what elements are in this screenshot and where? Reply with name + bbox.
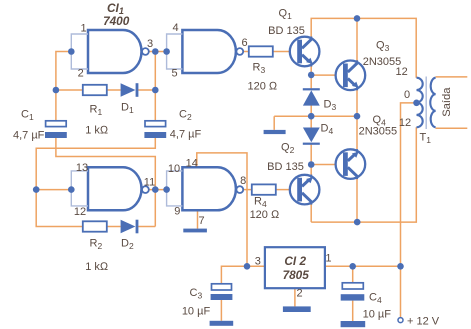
wire: 7805 pin3 node to C3	[221, 266, 265, 284]
NAND gate CI1-c input bracket	[71, 171, 88, 206]
wire: C4 to ground	[352, 301, 354, 321]
node: R1 row right	[152, 87, 159, 94]
wire: gate4 output to R4	[243, 189, 252, 191]
NAND gate CI1-b output bubble	[236, 48, 243, 55]
resistor R2	[83, 221, 107, 231]
svg-text:1: 1	[80, 23, 86, 35]
svg-text:C3: C3	[190, 287, 203, 301]
svg-text:R4: R4	[254, 196, 267, 210]
wire: bottom rail to transformer primary bottom	[311, 127, 416, 222]
wire: C1 bottom to gate3 output column	[56, 138, 155, 190]
NAND gate CI1-d output bubble	[236, 186, 243, 193]
svg-text:D1: D1	[121, 102, 134, 116]
diode D2	[121, 220, 139, 234]
wire: Q3 emitter / Q4 emitter column	[356, 90, 358, 149]
transistor Q2	[290, 175, 320, 205]
transformer T1 core	[425, 77, 427, 130]
svg-text:14: 14	[186, 158, 198, 170]
NAND gate CI1-c body	[88, 167, 142, 210]
svg-text:D2: D2	[121, 238, 134, 252]
wire: Q2 emitter up	[310, 165, 312, 175]
svg-text:1: 1	[325, 253, 331, 265]
ground: C4	[341, 321, 366, 327]
wire: Q3 collector	[356, 18, 358, 60]
IC CI2 7805 box	[265, 247, 325, 288]
wire: D4 cathode to Q2 emitter node	[310, 145, 312, 165]
node: transformer center tap	[413, 100, 420, 107]
node: D3/D4 ground junction	[308, 113, 315, 120]
svg-text:3: 3	[147, 38, 153, 50]
svg-text:D3: D3	[324, 99, 337, 113]
svg-text:R3: R3	[253, 62, 266, 76]
node: gate4 input junction	[163, 186, 170, 193]
node: bottom rail Q4 collector	[354, 219, 361, 226]
wire: C4 node down	[352, 266, 354, 283]
svg-text:1 kΩ: 1 kΩ	[85, 125, 109, 137]
resistor R3	[249, 46, 273, 56]
node: 7805 output	[244, 263, 251, 270]
transistor Q1	[290, 37, 320, 67]
svg-text:3: 3	[255, 256, 261, 268]
wire: gate2 output to R3	[243, 51, 249, 53]
node: Q2 emitter / Q4 base	[308, 161, 315, 168]
svg-text:11: 11	[144, 177, 155, 189]
wire: 7805 pin2 to ground	[294, 288, 296, 306]
transistor Q4	[336, 149, 366, 179]
wire: R1-D1 feedback row	[56, 89, 155, 91]
capacitor C1	[45, 121, 67, 138]
svg-text:10: 10	[168, 163, 180, 175]
svg-text:12: 12	[395, 66, 407, 78]
transformer T1 secondary winding	[430, 78, 435, 128]
svg-text:12: 12	[399, 117, 411, 129]
NAND gate CI1-b input bracket	[167, 34, 183, 69]
ground: gate4 pin7	[183, 229, 207, 233]
wire: R2-D2 row to gate3 output	[107, 190, 156, 227]
ground: 7805 pin2	[283, 306, 311, 312]
svg-text:5: 5	[171, 68, 177, 80]
wire: center tap to +12V column	[401, 103, 417, 318]
svg-text:7400: 7400	[103, 14, 130, 28]
node: R1 row left	[53, 87, 60, 94]
wire: transformer secondary bottom terminal	[436, 127, 468, 129]
wire: 7805 pin1 to C4 node and +12V column	[325, 265, 401, 267]
svg-text:+ 12 V: + 12 V	[407, 316, 440, 328]
wire: ground node to D4 anode	[310, 116, 312, 127]
wire: gate1 output to gate2 input	[149, 51, 167, 53]
NAND gate CI1-a body	[88, 30, 142, 73]
svg-text:Q2: Q2	[281, 142, 295, 156]
svg-text:120 Ω: 120 Ω	[250, 209, 280, 221]
wire: Q2 collector down	[310, 204, 312, 222]
node: C4 top	[349, 263, 356, 270]
wire: Q4 collector down	[356, 179, 358, 222]
node: gate1 output junction	[152, 48, 159, 55]
NAND gate CI1-b body	[182, 30, 236, 73]
resistor R1	[83, 85, 107, 95]
svg-text:2: 2	[296, 288, 302, 300]
svg-text:BD 135: BD 135	[267, 161, 304, 173]
resistor R4	[252, 184, 276, 194]
node: top rail Q3 collector	[354, 15, 361, 22]
node: gate2 input junction	[163, 48, 170, 55]
svg-text:C2: C2	[179, 109, 192, 123]
svg-text:D4: D4	[321, 123, 334, 137]
node: gate1 input junction	[68, 48, 75, 55]
svg-text:BD 135: BD 135	[268, 25, 305, 37]
capacitor C4	[341, 283, 365, 301]
svg-text:Q1: Q1	[279, 8, 293, 22]
wire: R4 to Q2 base	[276, 189, 290, 191]
svg-text:1 kΩ: 1 kΩ	[85, 261, 109, 273]
capacitor C2	[144, 121, 166, 138]
svg-text:9: 9	[174, 206, 180, 218]
node: Q1 emitter / Q3 base	[308, 72, 315, 79]
svg-text:10 µF: 10 µF	[182, 306, 211, 318]
svg-text:4: 4	[172, 22, 178, 34]
wire: top rail Q1 collector to transformer primary top	[311, 18, 416, 77]
ground: C3	[210, 321, 234, 326]
svg-text:4,7 µF: 4,7 µF	[170, 129, 202, 141]
svg-text:120 Ω: 120 Ω	[247, 81, 277, 93]
wire: C3 to ground	[220, 300, 222, 321]
wire: pin14 supply from gate4 to 7805 output node	[197, 153, 247, 266]
NAND gate CI1-a output bubble	[142, 48, 149, 55]
svg-text:2N3055: 2N3055	[359, 126, 398, 138]
node: gate3 input bracket	[68, 186, 75, 193]
svg-text:0: 0	[404, 89, 410, 101]
node: left bus gate3 input	[33, 186, 40, 193]
NAND gate CI1-d input bracket	[167, 171, 183, 206]
wire: gate3 input bus horizontal	[36, 189, 71, 191]
wire: D3 anode to ground node	[310, 105, 312, 116]
svg-text:CI 2: CI 2	[284, 254, 306, 268]
svg-text:R2: R2	[90, 238, 103, 252]
wire: gate3 output to gate4 input	[149, 189, 167, 191]
transformer T1 primary winding	[417, 78, 423, 128]
wire: R3 to Q1 base	[273, 51, 290, 53]
svg-text:7: 7	[198, 215, 204, 227]
wire: node to D3 cathode	[310, 75, 312, 89]
svg-text:C4: C4	[369, 292, 382, 306]
svg-text:8: 8	[240, 175, 246, 187]
diode D4	[303, 128, 320, 145]
diode D1	[121, 83, 139, 97]
svg-text:2: 2	[78, 68, 84, 80]
NAND gate CI1-a input bracket	[71, 34, 88, 69]
node: +12V column	[397, 263, 404, 270]
wire: node to Q3 base	[311, 74, 335, 76]
svg-text:13: 13	[76, 162, 88, 174]
svg-text:6: 6	[241, 37, 247, 49]
svg-text:12: 12	[74, 206, 86, 218]
wire: C2 bottom left bus to gate3 input	[36, 138, 155, 190]
svg-text:Q3: Q3	[376, 40, 390, 54]
svg-text:R1: R1	[90, 104, 103, 118]
capacitor C3	[211, 284, 233, 300]
wire: ground rail D3/D4 node to emitters node	[274, 116, 357, 130]
svg-text:C1: C1	[21, 109, 34, 123]
svg-text:10 µF: 10 µF	[363, 309, 392, 321]
diode D3	[303, 88, 320, 105]
NAND gate CI1-d body	[182, 167, 236, 210]
wire: left bus down to R2 row	[36, 190, 83, 227]
node: Q3/Q4 emitters junction	[354, 113, 361, 120]
ground: D3/D4 node	[264, 130, 286, 134]
transistor Q3	[336, 60, 366, 90]
wire: Q2 emitter node to Q4 base	[311, 164, 335, 166]
svg-text:4,7 µF: 4,7 µF	[13, 130, 45, 142]
wire: gate1 output down through R1 row to C2 top	[154, 52, 156, 121]
wire: gate4 pin7 to ground	[197, 210, 199, 228]
wire: gate1 feedback left + C1 column top	[56, 52, 71, 121]
NAND gate CI1-c output bubble	[142, 186, 149, 193]
svg-text:7805: 7805	[283, 268, 310, 282]
node: gate3 output junction	[152, 186, 159, 193]
wire: transformer secondary top terminal	[436, 76, 468, 78]
terminal: +12V	[398, 318, 403, 323]
svg-text:T1: T1	[420, 132, 432, 146]
svg-text:Saída: Saída	[441, 87, 453, 117]
wire: Q1 emitter to node	[310, 66, 312, 75]
